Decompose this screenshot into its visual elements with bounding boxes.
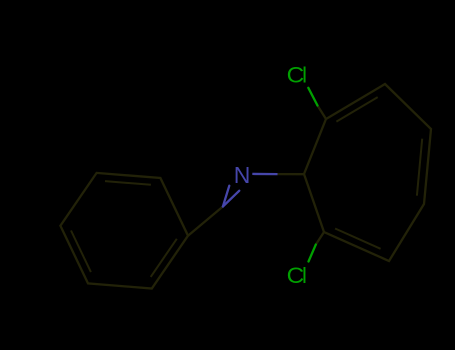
svg-text:l: l: [302, 263, 307, 288]
benzene ring (left phenyl, benzylidene): [60, 173, 188, 289]
right ring inner aromatic line (top edge): [336, 97, 377, 122]
bond C2 to Cl (top): green half: [308, 88, 317, 106]
bond C6 to Cl (bottom): carbon half: [316, 232, 324, 245]
benzene ring (right, 2,6-dichlorophenyl): [304, 84, 431, 261]
left ring inner aromatic line (top edge): [105, 181, 151, 185]
right ring inner aromatic line (bottom edge): [335, 229, 381, 249]
bond C2 to Cl (top): carbon half: [318, 106, 327, 120]
svg-text:l: l: [302, 62, 307, 87]
left ring inner aromatic line (left edge): [71, 231, 91, 273]
bond CH to left ring: [188, 207, 223, 236]
bond C6 to Cl (bottom): green half: [309, 245, 316, 262]
svg-text:N: N: [234, 162, 251, 188]
bond N to ring ipso carbon: carbon half: [278, 173, 305, 175]
left ring inner aromatic line (lower-right edge): [151, 239, 177, 277]
bond C=N double line 2 (blue): [223, 191, 239, 207]
bond N to ring ipso carbon: blue half: [252, 173, 277, 176]
bond C=N double line 1 (blue): [223, 186, 229, 207]
right ring inner aromatic line (right edge): [417, 139, 422, 196]
